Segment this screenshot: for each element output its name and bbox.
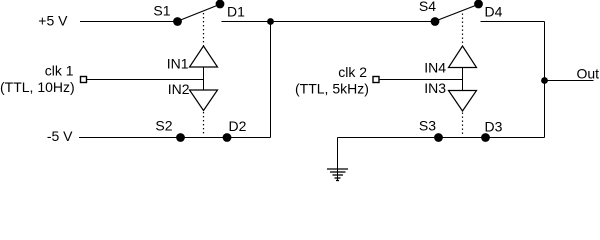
switch S1 contact dot <box>173 17 182 26</box>
wire IN1 input to IN2 input <box>203 67 205 90</box>
wire clk1 to buffers <box>87 79 204 81</box>
control line S4 (dotted) <box>462 14 464 46</box>
wire D1 to node A <box>222 21 271 23</box>
svg-text:S1: S1 <box>153 3 170 19</box>
wire D4 to output branch <box>481 21 545 23</box>
wire node A to S4 <box>271 21 436 23</box>
svg-text:S3: S3 <box>419 118 436 134</box>
wire ground riser to S3 <box>338 137 439 139</box>
ground symbol bar 2 <box>330 171 346 173</box>
ground symbol bar 5 <box>336 180 339 182</box>
wire -5V supply through S2/D2 to node A <box>79 137 271 139</box>
switch S2 contact dot (closed) <box>176 133 185 142</box>
wire output branch vertical D4 to D3 <box>544 22 546 138</box>
svg-text:(TTL, 5kHz): (TTL, 5kHz) <box>295 81 369 97</box>
switch S3 contact dot (closed) <box>434 133 443 142</box>
control line S2 (dotted) <box>203 112 205 136</box>
switch S4 contact dot <box>431 17 440 26</box>
svg-text:S4: S4 <box>419 0 436 14</box>
ground symbol bar 3 <box>333 174 344 176</box>
wire node A vertical to D2 row <box>270 22 272 138</box>
buffer IN4 <box>449 46 477 68</box>
output node junction dot <box>541 77 548 84</box>
svg-text:Out: Out <box>577 66 600 82</box>
svg-text:D1: D1 <box>227 4 245 20</box>
node A junction dot <box>267 18 274 25</box>
svg-text:clk 2: clk 2 <box>338 64 367 80</box>
ground symbol bar 1 <box>327 168 348 170</box>
buffer IN3 <box>449 91 477 112</box>
control line S1 (dotted) <box>203 13 205 46</box>
switch D2 contact dot (closed) <box>223 133 232 142</box>
switch S1 arm tip dot <box>216 0 225 8</box>
svg-text:IN2: IN2 <box>168 81 190 97</box>
svg-text:+5 V: +5 V <box>38 12 68 28</box>
buffer IN1 <box>190 46 218 67</box>
switch S4 arm (open) <box>436 5 479 22</box>
wire ground vertical <box>337 138 339 181</box>
svg-text:D2: D2 <box>229 118 247 134</box>
svg-text:IN4: IN4 <box>424 60 446 76</box>
svg-text:clk 1: clk 1 <box>45 63 74 79</box>
wire S3/D3 row to output branch <box>439 137 545 139</box>
svg-text:S2: S2 <box>155 118 172 134</box>
ground symbol bar 4 <box>335 177 341 179</box>
clk2 input terminal square <box>373 77 379 83</box>
wire clk2 to buffers <box>380 79 463 81</box>
svg-text:(TTL, 10Hz): (TTL, 10Hz) <box>0 79 75 95</box>
switch D3 contact dot (closed) <box>481 133 490 142</box>
control line S3 (dotted) <box>462 113 464 136</box>
switch S1 arm (open) <box>178 5 220 22</box>
svg-text:D3: D3 <box>485 118 503 134</box>
svg-text:D4: D4 <box>485 4 503 20</box>
buffer IN2 <box>190 90 218 111</box>
switch S4 arm tip dot <box>474 0 483 8</box>
clk1 input terminal square <box>81 77 87 83</box>
svg-text:-5 V: -5 V <box>47 128 73 144</box>
wire output stub <box>545 80 594 82</box>
svg-text:IN1: IN1 <box>167 56 189 72</box>
wire IN4 input to IN3 input <box>462 68 464 91</box>
svg-text:IN3: IN3 <box>424 80 446 96</box>
wire +5V supply to S1 <box>80 21 178 23</box>
